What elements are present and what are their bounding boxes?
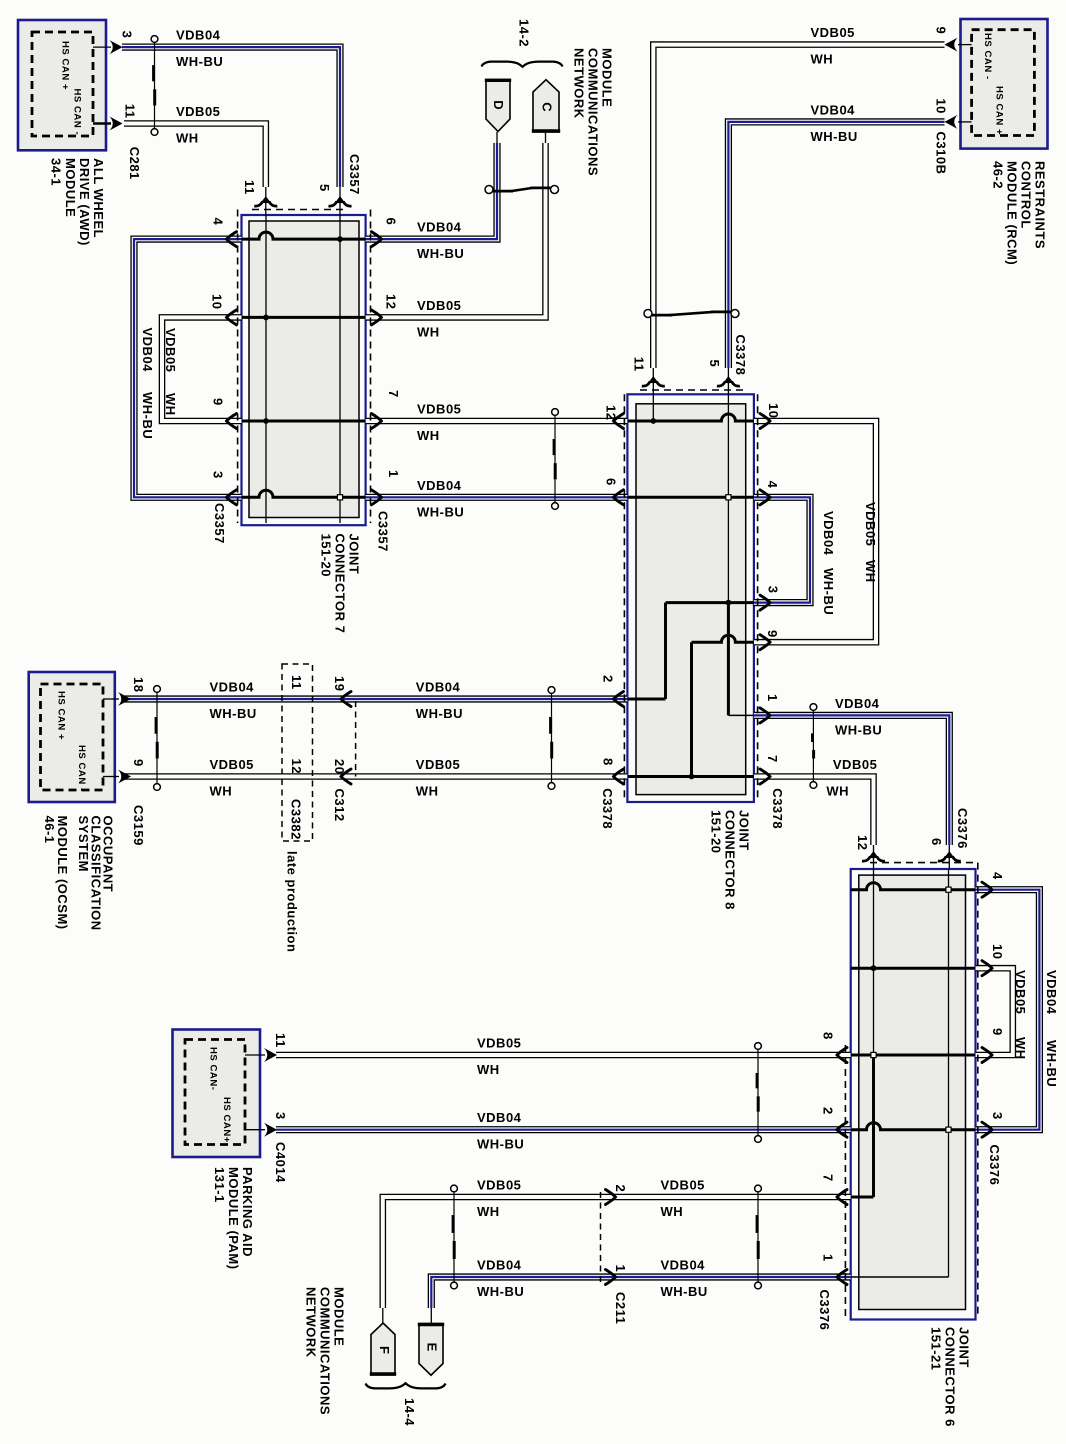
svg-text:VDB04: VDB04	[140, 328, 155, 373]
connector label C3382	[289, 799, 304, 840]
wire VDB04 WH-BU: PAM pin 3 to JC6 pin 2	[276, 1126, 851, 1133]
AWD pin 11 stub wire	[93, 122, 111, 124]
JC8 pin 5 entry arrow	[717, 376, 740, 386]
pin label 3 (PAM)	[273, 1112, 288, 1120]
C211 pin 2 arrow	[606, 1190, 616, 1205]
svg-text:F: F	[377, 1346, 392, 1354]
svg-text:11: 11	[242, 180, 257, 195]
JC6 bus row pin 4	[851, 883, 976, 890]
wire label WH (PAM)	[477, 1062, 500, 1077]
module label ALL WHEEL DRIVE (AWD) MODULE 34-1	[49, 158, 107, 246]
pin label 3 (JC7)	[211, 471, 226, 479]
svg-text:14-4: 14-4	[402, 1398, 417, 1426]
JC8 internal vertical pin3-pin1	[727, 603, 730, 716]
pin label 12 (JC7)	[384, 294, 399, 309]
svg-text:VDB05: VDB05	[417, 402, 461, 417]
JC7 pin 7 arrow	[371, 414, 381, 429]
JC8 pin 2 arrow	[614, 692, 624, 707]
off-page connector tag F	[370, 1323, 396, 1375]
svg-text:C3159: C3159	[131, 805, 146, 846]
JC6 pin 2 arrow	[837, 1122, 847, 1137]
JC6 pin 3 arrow	[982, 1122, 992, 1137]
svg-text:C211: C211	[613, 1292, 628, 1324]
joint connector 7 label	[319, 534, 362, 634]
JC8 pin 4 arrow	[760, 490, 770, 505]
wire VDB05 WH: connector F via C211 to JC6 pin 7	[383, 1197, 851, 1323]
pin label 11 (AWD)	[123, 104, 138, 119]
C312 pin 19 arrow	[341, 692, 351, 707]
pin label 11 (PAM)	[273, 1033, 288, 1048]
JC7 junction pin4 row	[337, 236, 343, 242]
svg-text:VDB04: VDB04	[416, 680, 461, 695]
pin label 4 (JC8)	[765, 481, 780, 489]
pin label 12 (JC8)	[604, 405, 619, 420]
label 14-2	[517, 19, 532, 47]
wire label VDB05 (OCSM)	[210, 757, 254, 772]
JC8 internal vertical from pin 11	[652, 394, 654, 421]
svg-text:HS CAN -: HS CAN -	[76, 745, 87, 792]
wire label WH (C312-JC8)	[416, 784, 439, 799]
svg-text:151-20: 151-20	[709, 810, 724, 853]
pin label 2 (JC8)	[601, 675, 616, 683]
RCM module inner dashed boundary	[972, 30, 1035, 136]
JC6 bus row pins 2-3	[851, 1123, 976, 1130]
PAM module inner dashed boundary	[185, 1040, 245, 1145]
wire label VDB04 WH-BU (JC8 right loop)	[821, 511, 836, 615]
JC6 pin 10 arrow	[982, 961, 992, 976]
off-page connector tag C	[532, 80, 560, 132]
JC7 junction pin9 row	[263, 418, 269, 424]
svg-text:10: 10	[990, 944, 1005, 959]
module label RESTRAINTS CONTROL MODULE (RCM) 46-2	[991, 161, 1048, 265]
PAM pin 11 stub wire	[245, 1054, 265, 1056]
JC8 row pin 1	[728, 714, 754, 716]
brace for module communications network 14-2	[482, 62, 563, 67]
pin label 11 (JC7 top)	[242, 180, 257, 195]
svg-text:RESTRAINTS: RESTRAINTS	[1033, 161, 1048, 249]
label HS CAN+ (PAM)	[221, 1097, 232, 1143]
svg-text:VDB05: VDB05	[176, 104, 220, 119]
svg-text:PARKING AID: PARKING AID	[240, 1167, 255, 1257]
wire label WH-BU (C312-JC8)	[416, 706, 463, 721]
svg-text:8: 8	[601, 758, 616, 766]
JC6 internal vertical from pin 6	[948, 869, 950, 1277]
JC8 pin 6 arrow	[614, 490, 624, 505]
JC6 bus row pin 7	[851, 1196, 874, 1199]
svg-text:VDB05: VDB05	[210, 757, 254, 772]
svg-text:MODULE: MODULE	[332, 1287, 347, 1346]
svg-text:1: 1	[613, 1265, 628, 1273]
svg-text:WH: WH	[661, 1204, 684, 1219]
wire label VDB05 (C312-JC8)	[416, 757, 460, 772]
wire label VDB05 WH (JC8 right loop)	[863, 502, 878, 583]
svg-text:C3378: C3378	[600, 788, 615, 829]
pin label 6 (JC7)	[384, 218, 399, 226]
svg-text:4: 4	[765, 481, 780, 489]
svg-text:1: 1	[765, 694, 780, 702]
svg-text:2: 2	[601, 675, 616, 683]
JC7 pin 4 arrow	[227, 232, 237, 247]
pin label 12 (C3382)	[289, 759, 304, 774]
svg-text:DRIVE (AWD): DRIVE (AWD)	[77, 158, 92, 246]
svg-text:HS CAN+: HS CAN+	[221, 1097, 232, 1143]
wire label WH (OCSM)	[210, 784, 233, 799]
svg-text:HS CAN +: HS CAN +	[56, 691, 67, 740]
svg-text:3: 3	[120, 31, 135, 39]
JC8 pin 11 entry arrow	[642, 376, 665, 386]
JC8 pin 1 arrow	[760, 708, 770, 723]
svg-text:HS CAN -: HS CAN -	[72, 89, 83, 136]
wire label WH-BU (RCM)	[811, 129, 858, 144]
svg-text:46-2: 46-2	[991, 161, 1006, 189]
svg-text:12: 12	[384, 294, 399, 309]
svg-text:12: 12	[289, 759, 304, 774]
wire label VDB05 (JC8-JC6)	[833, 757, 877, 772]
connector label C3376 (JC6 right)	[987, 1145, 1002, 1186]
PAM pin 3 stub wire	[245, 1129, 265, 1131]
wire label WH (C211-JC6)	[661, 1204, 684, 1219]
pin label 6 (JC8)	[604, 478, 619, 486]
pin label 4 (JC7)	[211, 218, 226, 226]
wire label WH-BU (JC8 pin1)	[835, 722, 882, 737]
wire VDB04 WH-BU loop: JC8 pin 4 to pin 3	[754, 497, 810, 602]
svg-text:7: 7	[765, 755, 780, 763]
svg-text:19: 19	[332, 676, 347, 691]
pin label 9 (RCM)	[934, 27, 949, 35]
connector label C3376 (JC6 bottom left)	[817, 1290, 832, 1331]
svg-text:JOINT: JOINT	[737, 810, 752, 851]
wire label VDB04 (JC7 pin1)	[417, 478, 462, 493]
pin label 2 (JC6)	[821, 1107, 836, 1115]
connector label C3378 (JC8 bottom left)	[600, 788, 615, 829]
svg-text:11: 11	[273, 1033, 288, 1048]
svg-text:C3357: C3357	[376, 511, 391, 552]
joint connector 8 box	[627, 394, 754, 802]
twisted pair symbol on E/F wires	[451, 1185, 458, 1289]
twisted pair symbol before JC8 pins 2/8	[548, 687, 555, 790]
svg-text:VDB05: VDB05	[863, 502, 878, 546]
wire VDB05 WH: AWD pin 11 to JC7 pin 11 (top)	[124, 124, 266, 216]
label 14-4	[402, 1398, 417, 1426]
pin label 19 (C312)	[332, 676, 347, 691]
svg-text:VDB04: VDB04	[417, 220, 462, 235]
pin label 20 (C312)	[332, 759, 347, 774]
svg-text:WH-BU: WH-BU	[417, 504, 464, 519]
wire label VDB04 (RCM)	[811, 102, 856, 117]
connector label C4014	[273, 1142, 288, 1183]
svg-text:C281: C281	[127, 147, 142, 180]
JC8 pin 8 arrow	[614, 769, 624, 784]
pin label 10 (RCM)	[934, 98, 949, 113]
JC6 pin 9 arrow	[982, 1048, 992, 1063]
wire VDB05 WH loop: JC6 pin 10 to pin 9	[976, 968, 1013, 1055]
svg-text:WH-BU: WH-BU	[1044, 1040, 1059, 1087]
RCM pin 9 arrow	[945, 38, 958, 52]
wire label WH (JC8-JC6)	[826, 784, 849, 799]
svg-text:WH: WH	[176, 131, 199, 146]
pin label 12 (JC6 top)	[855, 835, 870, 850]
svg-text:VDB05: VDB05	[477, 1178, 521, 1193]
JC6 junction pin10 row	[871, 965, 877, 971]
off-page connector tag D	[485, 80, 511, 132]
wire VDB04 WH-BU: JC8 pin 1 to JC6 pin 6 (top)	[754, 715, 949, 869]
pin label 2 (C211)	[613, 1185, 628, 1193]
connector label C281	[127, 147, 142, 180]
wire VDB04 WH-BU: AWD pin 3 to JC7 pin 5 (top)	[122, 47, 340, 215]
connector label C211	[613, 1292, 628, 1324]
svg-text:VDB04: VDB04	[477, 1258, 522, 1273]
wire VDB04 WH-BU: connector E via C211 to JC6 pin 1	[431, 1277, 850, 1324]
svg-text:VDB05: VDB05	[833, 757, 877, 772]
svg-text:HS CAN +: HS CAN +	[993, 86, 1004, 135]
twisted pair symbol between JC8 and JC6	[810, 704, 817, 789]
pin label 11 (C3382)	[289, 675, 304, 690]
module box: Restraints Control Module (RCM)	[961, 19, 1048, 149]
svg-text:WH: WH	[210, 784, 233, 799]
svg-text:6: 6	[384, 218, 399, 226]
JC7 pin 5 entry arrow	[329, 196, 352, 206]
PAM pin 3 arrow	[264, 1123, 277, 1137]
pin label 1 (JC8)	[765, 694, 780, 702]
RCM pin 10 arrow	[945, 115, 958, 129]
svg-text:3: 3	[211, 471, 226, 479]
svg-text:VDB05: VDB05	[416, 757, 460, 772]
JC7 bus row pins 9-7	[242, 420, 366, 423]
svg-text:WH: WH	[417, 428, 440, 443]
svg-text:VDB04: VDB04	[176, 28, 221, 43]
svg-text:COMMUNICATIONS: COMMUNICATIONS	[318, 1287, 333, 1415]
pin label 10 (JC6)	[990, 944, 1005, 959]
JC6 terminal square pin8 row	[871, 1052, 876, 1057]
wire label VDB05 (JC7 pin12)	[417, 298, 461, 313]
network label MODULE COMMUNICATIONS NETWORK (bottom)	[304, 1287, 347, 1415]
connector label C3376 (JC6 top)	[955, 808, 970, 849]
svg-text:MODULE (RCM): MODULE (RCM)	[1005, 161, 1020, 265]
svg-text:18: 18	[131, 677, 146, 692]
svg-text:WH-BU: WH-BU	[477, 1137, 524, 1152]
wire VDB05 WH: PAM pin 11 to JC6 pin 8	[276, 1052, 851, 1059]
wire label VDB05 (RCM)	[811, 25, 855, 40]
AWD pin 3 arrow	[110, 40, 123, 54]
wire label VDB05 WH (JC6 inner loop)	[1013, 970, 1028, 1060]
JC8 junction pin12 row	[650, 418, 656, 424]
pin label 9 (JC8)	[765, 630, 780, 638]
svg-text:HS CAN -: HS CAN -	[982, 33, 993, 80]
svg-text:CONNECTOR 7: CONNECTOR 7	[333, 534, 348, 634]
connector label C3357 (JC7 bottom right)	[376, 511, 391, 552]
wire VDB05 WH: JC7 pin 7 to JC8 pin 12	[366, 418, 628, 425]
JC7 pin 10 arrow	[227, 310, 237, 325]
JC8 bus row pins 6-4	[627, 496, 754, 499]
wire label VDB04 (E wire)	[477, 1258, 522, 1273]
svg-text:HS CAN-: HS CAN-	[208, 1047, 219, 1090]
JC6 terminal square pin4 row	[946, 887, 951, 892]
module box: Occupant Classification System Module (OCSM)	[29, 672, 115, 802]
svg-text:CONNECTOR 8: CONNECTOR 8	[723, 810, 738, 910]
JC8 pin 7 arrow	[760, 769, 770, 784]
connector label C3378 (JC8 bottom right)	[770, 788, 785, 829]
label HS CAN - (RCM)	[982, 33, 993, 80]
pin label 9 (JC6)	[990, 1028, 1005, 1036]
wire label VDB04 (JC7 pin6)	[417, 220, 462, 235]
svg-text:46-1: 46-1	[42, 816, 57, 844]
svg-text:1: 1	[821, 1254, 836, 1262]
svg-text:5: 5	[317, 184, 332, 192]
pin label 10 (JC8)	[766, 403, 781, 418]
pin label 1 (JC7)	[386, 470, 401, 478]
AWD module inner dashed boundary	[32, 32, 93, 136]
JC6 row pin 1	[851, 1276, 949, 1278]
JC8 internal vertical pin3-pin2	[664, 603, 667, 699]
OCSM pin 9 stub wire	[103, 776, 119, 778]
svg-text:2: 2	[821, 1107, 836, 1115]
JC6 pin 4 arrow	[982, 882, 992, 897]
svg-text:C310B: C310B	[934, 132, 949, 175]
JC6 pin 12 entry arrow	[862, 851, 885, 861]
svg-text:VDB04: VDB04	[210, 680, 255, 695]
JC8 pin 3 arrow	[760, 595, 770, 610]
svg-text:12: 12	[604, 405, 619, 420]
label HS CAN + (AWD)	[60, 41, 71, 90]
JC6 internal vertical from pin 12	[873, 869, 875, 1055]
JC8 bus row pins 8-7	[627, 775, 754, 778]
pin label 7 (JC7)	[386, 390, 401, 398]
label HS CAN - (OCSM)	[76, 745, 87, 792]
svg-text:WH: WH	[163, 393, 178, 416]
wire label WH-BU (JC7 pin1)	[417, 504, 464, 519]
label late production	[285, 851, 300, 952]
svg-text:WH-BU: WH-BU	[416, 706, 463, 721]
wire VDB05 WH: OCSM pin 9 via C3382/C312 to JC8 pin 8	[123, 773, 627, 780]
wire label WH-BU (AWD)	[176, 54, 223, 69]
svg-text:WH: WH	[417, 324, 440, 339]
JC8 terminal square pin4 row	[726, 495, 731, 500]
wire VDB05 WH: JC8 pin 7 to JC6 pin 12 (top)	[754, 777, 874, 870]
JC7 pin 12 arrow	[371, 310, 381, 325]
svg-text:WH: WH	[477, 1204, 500, 1219]
pin label 3 (JC8)	[766, 586, 781, 594]
svg-text:HS CAN +: HS CAN +	[60, 41, 71, 90]
pin label 9 (JC7)	[211, 398, 226, 406]
twisted pair symbol on RCM wires	[644, 310, 739, 318]
svg-text:10: 10	[934, 98, 949, 113]
JC7 pin 1 arrow	[371, 490, 381, 505]
svg-text:WH-BU: WH-BU	[210, 706, 257, 721]
wire label WH (F wire)	[477, 1204, 500, 1219]
svg-text:WH: WH	[1013, 1037, 1028, 1060]
OCSM pin 18 arrow	[118, 692, 131, 706]
svg-text:11: 11	[289, 675, 304, 690]
JC8 pin 12 arrow	[614, 414, 624, 429]
wire VDB04 WH-BU: JC7 pin 1 to JC8 pin 6	[366, 494, 628, 501]
wire label VDB04 WH-BU (JC6 outer loop)	[1044, 970, 1059, 1087]
svg-text:JOINT: JOINT	[347, 534, 362, 575]
svg-text:C3376: C3376	[955, 808, 970, 849]
joint connector 7 box	[242, 215, 366, 525]
label HS CAN - (AWD)	[72, 89, 83, 136]
svg-text:C3378: C3378	[733, 335, 748, 376]
wire label WH (JC7 pin12)	[417, 324, 440, 339]
pin label 5 (JC7 top)	[317, 184, 332, 192]
svg-text:D: D	[491, 100, 506, 110]
JC7 pin 11 entry arrow	[254, 196, 277, 206]
svg-text:3: 3	[273, 1112, 288, 1120]
wire label WH (RCM)	[811, 52, 834, 67]
wire label VDB05 (PAM)	[477, 1036, 521, 1051]
svg-text:9: 9	[990, 1028, 1005, 1036]
svg-text:VDB04: VDB04	[835, 696, 880, 711]
network label MODULE COMMUNICATIONS NETWORK (top)	[572, 48, 615, 176]
JC7 bus row pins 10-12	[242, 316, 366, 319]
svg-text:C3357: C3357	[212, 503, 227, 544]
JC8 pin 10 arrow	[760, 414, 770, 429]
wire VDB05 WH loop: JC7 pin 10 to pin 9	[162, 317, 242, 421]
JC7 pin 6 arrow	[371, 232, 381, 247]
svg-text:VDB04: VDB04	[477, 1110, 522, 1125]
wire label VDB05 (C211-JC6)	[661, 1178, 705, 1193]
JC7 internal vertical from pin 11	[265, 215, 267, 523]
wire label WH-BU (JC7 pin6)	[417, 246, 464, 261]
svg-text:9: 9	[131, 759, 146, 767]
svg-text:WH: WH	[811, 52, 834, 67]
PAM pin 11 arrow	[264, 1048, 277, 1062]
wire VDB04 WH-BU: RCM pin 10 to JC8 pin 5 (top)	[728, 122, 944, 394]
JC7 pin 3 arrow	[227, 490, 237, 505]
JC8 bus row pin 9	[692, 635, 754, 642]
svg-text:9: 9	[765, 630, 780, 638]
svg-text:VDB05: VDB05	[477, 1036, 521, 1051]
wire label VDB04 (C312-JC8)	[416, 680, 461, 695]
pin label 10 (JC7)	[210, 294, 225, 309]
svg-text:CONNECTOR 6: CONNECTOR 6	[943, 1327, 958, 1427]
svg-text:WH-BU: WH-BU	[661, 1284, 708, 1299]
module label OCCUPANT CLASSIFICATION SYSTEM MODULE (OCSM) 46-1	[42, 816, 116, 931]
AWD pin 11 arrow	[110, 117, 123, 131]
JC8 bus row pins 12-10	[627, 414, 754, 421]
svg-text:C3376: C3376	[817, 1290, 832, 1331]
pin label 4 (JC6)	[990, 872, 1005, 880]
svg-text:12: 12	[855, 835, 870, 850]
connector label C3357 (JC7 top)	[347, 154, 362, 195]
svg-text:VDB05: VDB05	[811, 25, 855, 40]
svg-text:WH-BU: WH-BU	[176, 54, 223, 69]
wire label WH (AWD)	[176, 131, 199, 146]
svg-text:WH-BU: WH-BU	[417, 246, 464, 261]
svg-text:151-20: 151-20	[319, 534, 334, 577]
svg-text:6: 6	[604, 478, 619, 486]
svg-text:C312: C312	[332, 789, 347, 822]
svg-text:MODULE: MODULE	[63, 158, 78, 217]
label HS CAN + (RCM)	[993, 86, 1004, 135]
JC7 pin 9 arrow	[227, 414, 237, 429]
joint connector 6 box	[851, 869, 976, 1320]
svg-text:10: 10	[766, 403, 781, 418]
svg-text:WH-BU: WH-BU	[140, 392, 155, 439]
svg-text:VDB04: VDB04	[1044, 970, 1059, 1015]
svg-text:14-2: 14-2	[517, 19, 532, 47]
svg-text:CONTROL: CONTROL	[1019, 161, 1034, 229]
svg-text:VDB04: VDB04	[661, 1258, 706, 1273]
C211 pin 1 arrow	[606, 1270, 616, 1285]
wire VDB05 WH loop: JC8 pin 10 to pin 9	[754, 421, 876, 642]
C312 pin 20 arrow	[341, 769, 351, 784]
RCM pin 10 stub wire	[958, 121, 972, 123]
wire VDB04 WH-BU: JC7 pin 6 to connector D	[366, 132, 497, 239]
pin label 6 (JC6 top)	[929, 838, 944, 846]
JC8 internal vertical from pin 5	[727, 394, 729, 602]
svg-text:151-21: 151-21	[929, 1327, 944, 1370]
svg-text:10: 10	[210, 294, 225, 309]
